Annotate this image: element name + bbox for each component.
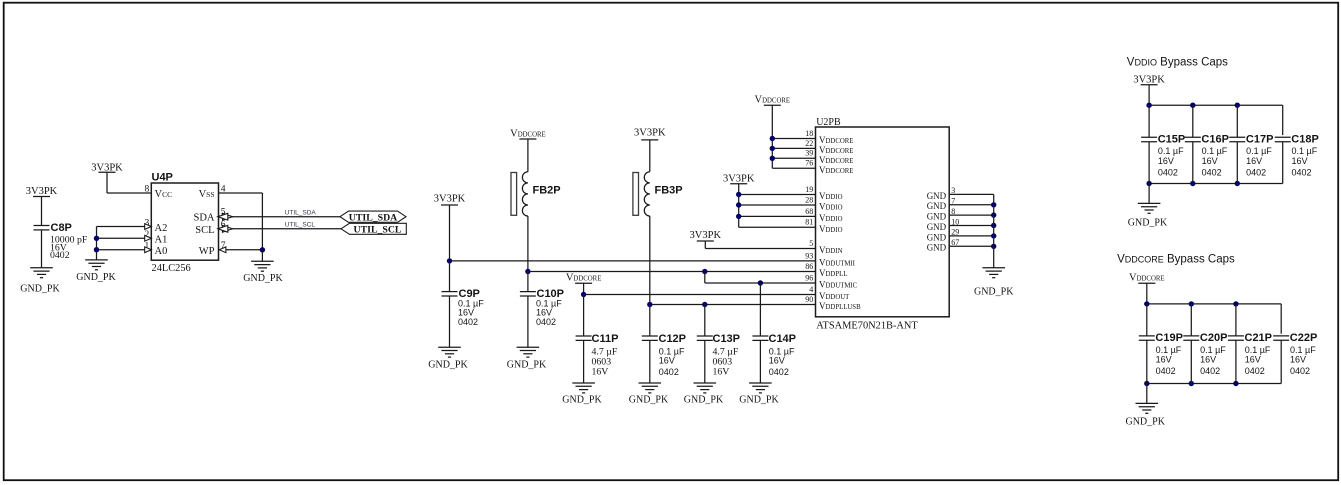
junction VDDIO pin 19 <box>736 192 741 197</box>
svg-text:C21P: C21P <box>1245 332 1273 344</box>
svg-text:VDDOUT: VDDOUT <box>819 291 850 301</box>
svg-text:GND_PK: GND_PK <box>974 287 1014 298</box>
junction VDDPLL to VDDUTMIC drop <box>702 269 707 274</box>
junction bottom bus C20P <box>1189 381 1194 386</box>
svg-text:VSS: VSS <box>199 189 215 200</box>
wire A1 <box>97 237 152 239</box>
svg-text:GND: GND <box>927 243 947 253</box>
pin 7 WP <box>199 241 226 257</box>
value label C21P 0.1uF 16V 0402 <box>1245 345 1271 376</box>
pin 10 GND <box>927 217 960 232</box>
wire C12P to ground <box>649 340 651 383</box>
junction C9P on rail <box>447 258 452 263</box>
wire VDDOUT rail (pin 4) <box>584 294 816 296</box>
pin 6 SCL <box>195 220 226 236</box>
wire 3V3PK down to rail <box>449 205 451 261</box>
wire VDDPLL drop to VDDUTMIC rail <box>704 272 706 284</box>
svg-text:GND_PK: GND_PK <box>76 272 116 283</box>
svg-text:A0: A0 <box>155 246 168 257</box>
svg-text:28: 28 <box>805 195 813 204</box>
svg-text:0.1 µF: 0.1 µF <box>1200 345 1226 355</box>
pin 5 SDA <box>193 208 225 224</box>
wire 3V3PK to U4P pin 8 <box>106 172 108 193</box>
wire C16P leads <box>1192 105 1194 137</box>
svg-text:VDDIO Bypass Caps: VDDIO Bypass Caps <box>1127 57 1228 69</box>
svg-text:GND_PK: GND_PK <box>507 360 547 371</box>
svg-text:0.1 µF: 0.1 µF <box>1245 345 1271 355</box>
junction top bus C15P <box>1146 103 1151 108</box>
wire VDDIO pin 19 <box>739 194 816 196</box>
pin 96 VDDUTMIC <box>805 273 857 289</box>
ferrite bead FB3P <box>633 172 683 216</box>
junction bottom bus C16P <box>1190 181 1195 186</box>
svg-text:0402: 0402 <box>458 317 478 327</box>
svg-text:U4P: U4P <box>152 172 173 184</box>
junction GND pin 29 <box>991 233 996 238</box>
pin 7 GND <box>927 197 956 212</box>
pin 19 VDDIO <box>805 185 842 201</box>
power VDDCORE (U2PB pins) <box>755 95 791 106</box>
svg-text:0402: 0402 <box>1200 366 1220 376</box>
svg-text:16V: 16V <box>1245 355 1261 365</box>
svg-text:GND_PK: GND_PK <box>684 395 724 406</box>
svg-text:24LC256: 24LC256 <box>152 263 191 274</box>
capacitor C18P <box>1275 134 1319 146</box>
capacitor C14P <box>752 333 796 345</box>
value label C10P 0.1uF 16V 0402 <box>536 298 562 327</box>
pin 8 Vcc <box>145 184 173 200</box>
wire 3V3PK VDDIO bus <box>738 184 740 228</box>
value label C14P 0.1uF 16V 0402 <box>769 346 795 377</box>
wire VDDIO pin 68 <box>739 215 816 217</box>
svg-text:VDDIN: VDDIN <box>819 245 843 255</box>
svg-text:0.1 µF: 0.1 µF <box>1202 146 1228 156</box>
svg-text:4: 4 <box>809 285 813 294</box>
junction bottom bus C15P <box>1146 181 1151 186</box>
svg-text:16V: 16V <box>536 307 552 317</box>
svg-text:0402: 0402 <box>536 317 556 327</box>
wire WP to gnd bus <box>219 249 263 251</box>
svg-text:GND: GND <box>927 222 947 232</box>
svg-text:ATSAME70N21B-ANT: ATSAME70N21B-ANT <box>816 321 918 332</box>
svg-text:16V: 16V <box>1246 156 1262 166</box>
svg-text:90: 90 <box>805 295 813 304</box>
svg-text:0402: 0402 <box>769 367 789 377</box>
svg-text:3V3PK: 3V3PK <box>634 127 666 138</box>
pin 93 VDDUTMII <box>805 251 855 267</box>
power 3V3PK (C9P / VDDUTMII rail) <box>434 194 466 205</box>
svg-text:0402: 0402 <box>659 367 679 377</box>
wire VDDCORE pin 22 <box>772 147 815 149</box>
capacitor C21P <box>1228 332 1272 344</box>
ground GND_PK (VDDCORE bypass) <box>1125 403 1165 427</box>
capacitor C12P <box>642 333 686 345</box>
svg-text:VDDIO: VDDIO <box>819 191 843 201</box>
pin 39 VDDCORE <box>805 149 853 165</box>
wire 3V3PK to C8P <box>41 197 43 226</box>
ground GND_PK (C11P) <box>562 383 602 406</box>
ground GND_PK (C12P) <box>629 383 669 406</box>
ground GND_PK (VDDIO bypass) <box>1128 203 1168 228</box>
svg-text:22: 22 <box>805 139 813 148</box>
svg-text:0402: 0402 <box>1202 167 1222 177</box>
power 3V3PK (FB3P) <box>634 127 666 140</box>
svg-text:7: 7 <box>951 197 955 206</box>
wire GND pin 7 <box>949 204 994 206</box>
wire FB2P to VDDPLL rail <box>527 216 529 272</box>
pin 86 VDDPLL <box>805 262 847 278</box>
junction C13P on VDDPLLUSB rail <box>702 302 707 307</box>
ground GND_PK (A pins) <box>76 260 116 283</box>
svg-text:VDDCORE: VDDCORE <box>819 165 853 175</box>
svg-text:76: 76 <box>805 159 813 168</box>
ferrite bead FB2P <box>511 172 561 216</box>
svg-text:GND: GND <box>927 191 947 201</box>
svg-text:0.1 µF: 0.1 µF <box>1158 146 1184 156</box>
svg-text:GND: GND <box>927 201 947 211</box>
svg-text:SDA: SDA <box>193 213 214 224</box>
svg-text:UTIL_SDA: UTIL_SDA <box>285 209 317 216</box>
wire C8P to ground <box>41 230 43 268</box>
svg-text:UTIL_SCL: UTIL_SCL <box>354 225 402 236</box>
svg-text:VCC: VCC <box>155 189 173 200</box>
svg-text:C18P: C18P <box>1291 134 1319 146</box>
junction VDDCORE pin 39 <box>770 156 775 161</box>
svg-text:3: 3 <box>951 186 955 195</box>
junction bottom bus C17P <box>1235 181 1240 186</box>
wire bottom bus to ground (VDDCORE bypass) <box>1146 384 1148 404</box>
wire VDDCORE to FB2P <box>527 139 529 172</box>
svg-text:GND_PK: GND_PK <box>20 283 60 294</box>
IC U2PB ATSAME70N21B-ANT MCU box <box>816 127 950 317</box>
junction C14P on VDDUTMIC rail <box>758 280 763 285</box>
pin 29 GND <box>927 228 960 243</box>
svg-text:0.1 µF: 0.1 µF <box>1292 146 1318 156</box>
junction A1 <box>94 236 99 241</box>
junction WP/Vss <box>260 247 265 252</box>
power 3V3PK (C8P column) <box>26 186 58 197</box>
input arrow A2 <box>145 224 152 230</box>
svg-text:VDDUTMIC: VDDUTMIC <box>819 280 858 290</box>
svg-text:68: 68 <box>805 207 813 216</box>
junction VDDCORE pin 22 <box>770 146 775 151</box>
svg-text:16V: 16V <box>1158 156 1174 166</box>
svg-text:16V: 16V <box>458 307 474 317</box>
value label C19P 0.1uF 16V 0402 <box>1156 345 1182 376</box>
wire VDDCORE to VDDOUT rail <box>583 283 585 294</box>
power 3V3PK (U2PB VDDIO pins) <box>723 174 755 185</box>
pin 22 VDDCORE <box>805 139 853 155</box>
svg-text:UTIL_SCL: UTIL_SCL <box>285 221 316 228</box>
value label C9P 0.1uF 16V 0402 <box>458 298 484 327</box>
svg-text:3V3PK: 3V3PK <box>91 162 123 173</box>
capacitor C17P <box>1229 134 1273 146</box>
svg-text:3V3PK: 3V3PK <box>1133 75 1165 86</box>
wire A2 <box>97 226 152 228</box>
junction top bus C20P <box>1189 301 1194 306</box>
junction GND pin 10 <box>991 223 996 228</box>
value label C11P 4.7uF 0603 16V <box>592 346 618 377</box>
wire gnd bus down <box>261 250 263 261</box>
junction C11P on VDDOUT rail <box>581 292 586 297</box>
junction top bus C21P <box>1233 301 1238 306</box>
junction GND pin 67 <box>991 244 996 249</box>
svg-text:16V: 16V <box>1292 156 1308 166</box>
svg-text:C11P: C11P <box>592 333 619 345</box>
svg-text:U2PB: U2PB <box>816 117 841 128</box>
capacitor C15P <box>1141 134 1185 146</box>
pin 4 VDDOUT <box>809 285 850 301</box>
arrow WP input <box>219 247 226 253</box>
wire rail to C11P <box>583 295 585 336</box>
wire top bus (VDDCORE bypass) <box>1147 303 1281 305</box>
value label C22P 0.1uF 16V 0402 <box>1290 345 1316 376</box>
capacitor C19P <box>1139 332 1183 344</box>
wire C19P leads <box>1146 304 1148 336</box>
wire rail to C10P <box>527 272 529 292</box>
svg-text:GND_PK: GND_PK <box>562 395 602 406</box>
value label C13P 4.7uF 0603 16V <box>713 346 739 377</box>
wire C13P to ground <box>704 340 706 383</box>
pin 3 GND <box>927 186 956 201</box>
svg-text:67: 67 <box>951 238 959 247</box>
arrow SCL bidirectional <box>223 225 233 232</box>
svg-text:0402: 0402 <box>1292 167 1312 177</box>
svg-text:VDDPLL: VDDPLL <box>819 268 847 278</box>
svg-text:16V: 16V <box>1290 355 1306 365</box>
svg-text:VDDIO: VDDIO <box>819 224 843 234</box>
svg-text:C15P: C15P <box>1158 134 1186 146</box>
svg-text:16V: 16V <box>769 356 785 366</box>
svg-text:8: 8 <box>145 184 150 194</box>
pin 68 VDDIO <box>805 207 842 223</box>
capacitor C22P <box>1273 332 1317 344</box>
capacitor C20P <box>1183 332 1227 344</box>
pin 4 Vss <box>199 184 226 200</box>
capacitor C10P <box>520 288 564 300</box>
wire rail to C9P <box>449 261 451 292</box>
svg-text:96: 96 <box>805 273 813 282</box>
svg-text:VDDCORE: VDDCORE <box>819 145 853 155</box>
wire rail to C14P <box>759 283 761 336</box>
value label C16P 0.1uF 16V 0402 <box>1202 146 1228 177</box>
svg-text:GND_PK: GND_PK <box>629 395 669 406</box>
wire bottom bus to ground (VDDIO bypass) <box>1148 184 1150 204</box>
pin 67 GND <box>927 238 960 253</box>
svg-text:0402: 0402 <box>1290 366 1310 376</box>
pin 2 A1 <box>145 230 168 246</box>
net flag UTIL_SDA <box>340 211 406 224</box>
junction VDDIO pin 68 <box>736 214 741 219</box>
ground GND_PK (C13P) <box>684 383 724 406</box>
value label C20P 0.1uF 16V 0402 <box>1200 345 1226 376</box>
ground GND_PK (C10P) <box>507 347 547 371</box>
junction GND pin 8 <box>991 212 996 217</box>
IC U4P 24LC256 EEPROM box <box>151 183 218 260</box>
svg-text:FB3P: FB3P <box>655 185 683 197</box>
value label C15P 0.1uF 16V 0402 <box>1158 146 1184 177</box>
wire VDDCORE to top bus <box>1146 283 1148 304</box>
svg-text:5: 5 <box>809 239 813 248</box>
pin 8 GND <box>927 207 956 222</box>
net flag UTIL_SCL <box>341 223 406 235</box>
svg-text:86: 86 <box>805 262 813 271</box>
junction bottom bus C19P <box>1144 381 1149 386</box>
junction GND pin 7 <box>991 202 996 207</box>
svg-text:C20P: C20P <box>1200 332 1228 344</box>
svg-text:16V: 16V <box>713 367 730 378</box>
svg-text:VDDCORE: VDDCORE <box>755 95 791 106</box>
svg-text:UTIL_SDA: UTIL_SDA <box>349 213 397 224</box>
wire VDDCORE pin 76 <box>772 167 815 169</box>
wire VDDIO pin 28 <box>739 204 816 206</box>
pin 18 VDDCORE <box>805 129 853 145</box>
capacitor C16P <box>1185 134 1229 146</box>
svg-text:0402: 0402 <box>1158 167 1178 177</box>
svg-text:0402: 0402 <box>1156 366 1176 376</box>
wire Vss pin 4 to gnd bus <box>219 192 263 194</box>
wire 3V3PK to top bus <box>1148 85 1150 105</box>
svg-text:GND_PK: GND_PK <box>428 360 468 371</box>
svg-text:GND: GND <box>927 212 947 222</box>
value label C12P 0.1uF 16V 0402 <box>659 346 685 377</box>
svg-text:C22P: C22P <box>1290 332 1318 344</box>
junction C10P on VDDPLL rail <box>525 269 530 274</box>
ground GND_PK (C14P) <box>739 383 779 406</box>
svg-text:10: 10 <box>951 217 959 226</box>
svg-text:GND: GND <box>927 232 947 242</box>
svg-text:C17P: C17P <box>1246 134 1274 146</box>
svg-text:81: 81 <box>805 218 813 227</box>
svg-text:SCL: SCL <box>195 225 214 236</box>
junction VDDCORE pin 18 <box>770 136 775 141</box>
pin 81 VDDIO <box>805 218 842 234</box>
wire A0 <box>97 249 152 251</box>
junction top bus C16P <box>1190 103 1195 108</box>
svg-text:0402: 0402 <box>1246 167 1266 177</box>
wire bottom bus (VDDCORE bypass) <box>1147 383 1281 385</box>
svg-text:VDDCORE: VDDCORE <box>819 155 853 165</box>
svg-text:16V: 16V <box>1200 355 1216 365</box>
svg-text:GND_PK: GND_PK <box>1128 218 1168 229</box>
junction top bus C19P <box>1144 301 1149 306</box>
wire C17P leads <box>1236 105 1238 137</box>
capacitor C8P <box>34 222 72 234</box>
value label C17P 0.1uF 16V 0402 <box>1246 146 1272 177</box>
svg-text:FB2P: FB2P <box>533 185 561 197</box>
svg-text:C13P: C13P <box>713 333 741 345</box>
svg-text:29: 29 <box>951 228 959 237</box>
wire GND pin 10 <box>949 225 994 227</box>
wire C15P leads <box>1148 105 1150 137</box>
wire SDA <box>219 216 341 218</box>
power 3V3PK (VDDIN pin 5) <box>690 230 816 248</box>
svg-text:19: 19 <box>805 185 813 194</box>
wire VDDUTMII rail (pin 93) <box>450 260 816 262</box>
value label C8P 10000 pF 16V 0402 <box>50 234 88 261</box>
svg-text:VDDCORE: VDDCORE <box>510 128 546 139</box>
svg-text:VDDCORE: VDDCORE <box>819 135 853 145</box>
input arrow A1 <box>145 235 152 241</box>
wire top bus (VDDIO bypass) <box>1149 104 1283 106</box>
wire C20P leads <box>1190 304 1192 336</box>
svg-text:0402: 0402 <box>1245 366 1265 376</box>
svg-text:A2: A2 <box>155 223 168 234</box>
value label C18P 0.1uF 16V 0402 <box>1292 146 1318 177</box>
ground GND_PK (C8P) <box>20 268 60 295</box>
svg-text:VDDCORE: VDDCORE <box>1129 272 1165 283</box>
arrow SDA bidirectional <box>223 213 233 220</box>
svg-text:16V: 16V <box>659 356 675 366</box>
junction A0 <box>94 247 99 252</box>
power VDDCORE (VDDOUT) <box>566 272 602 283</box>
power VDDCORE (FB2P) <box>510 128 546 139</box>
wire VDDPLLUSB rail (pin 90) <box>650 304 816 306</box>
wire C9P to ground <box>449 296 451 347</box>
junction bottom bus C21P <box>1233 381 1238 386</box>
wire 3V3PK to FB3P <box>649 140 651 172</box>
wire VDDCORE pin 39 <box>772 157 815 159</box>
wire C11P to ground <box>583 340 585 383</box>
wire GND pin 3 <box>949 193 994 195</box>
wire C10P to ground <box>527 296 529 347</box>
svg-text:0.1 µF: 0.1 µF <box>1156 345 1182 355</box>
svg-text:A1: A1 <box>155 235 168 246</box>
svg-text:GND_PK: GND_PK <box>243 273 283 284</box>
svg-text:0.1 µF: 0.1 µF <box>1246 146 1272 156</box>
wire bottom bus (VDDIO bypass) <box>1149 183 1283 185</box>
pin 3 A2 <box>145 218 168 234</box>
wire VDDCORE pin 18 <box>772 138 815 140</box>
junction FB3P / C12P <box>647 302 652 307</box>
svg-text:0402: 0402 <box>50 250 70 261</box>
svg-text:C14P: C14P <box>769 333 797 345</box>
svg-text:VDDCORE Bypass Caps: VDDCORE Bypass Caps <box>1117 254 1235 266</box>
wire C14P to ground <box>759 340 761 383</box>
ground GND_PK (U4P) <box>243 261 283 284</box>
svg-text:3V3PK: 3V3PK <box>723 174 755 185</box>
wire GND pin 29 <box>949 235 994 237</box>
svg-text:3V3PK: 3V3PK <box>434 194 466 205</box>
svg-text:C19P: C19P <box>1155 332 1183 344</box>
wire 3V3PK to VDDIN <box>704 241 706 249</box>
pin 5 VDDIN <box>809 239 842 255</box>
svg-text:39: 39 <box>805 149 813 158</box>
svg-text:VDDIO: VDDIO <box>819 213 843 223</box>
svg-text:C12P: C12P <box>659 333 687 345</box>
ground GND_PK (U2PB) <box>974 268 1014 298</box>
svg-text:WP: WP <box>199 246 215 257</box>
svg-text:16V: 16V <box>592 367 609 378</box>
wire SCL <box>219 228 342 230</box>
wire GND pin 8 <box>949 214 994 216</box>
wire GND pin 67 <box>949 245 994 247</box>
ground GND_PK (C9P) <box>428 347 468 371</box>
svg-text:0.1 µF: 0.1 µF <box>1290 345 1316 355</box>
wire rail to C12P <box>649 305 651 336</box>
junction top bus C17P <box>1235 103 1240 108</box>
power 3V3PK (U4P Vcc) <box>91 162 123 173</box>
svg-text:VDDIO: VDDIO <box>819 202 843 212</box>
svg-text:16V: 16V <box>1156 355 1172 365</box>
input arrow A0 <box>145 247 152 253</box>
capacitor C11P <box>576 333 619 345</box>
wire VDDUTMIC rail (pin 96) <box>705 282 816 284</box>
pin 28 VDDIO <box>805 195 842 211</box>
pin 76 VDDCORE <box>805 159 853 175</box>
svg-text:93: 93 <box>805 251 813 260</box>
wire VDDIO pin 81 <box>739 226 816 228</box>
